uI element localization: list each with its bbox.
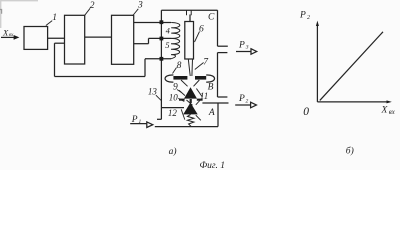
svg-text:7: 7 — [203, 57, 209, 67]
wire bottom feedthrough stub — [145, 58, 171, 60]
svg-text:6: 6 — [199, 25, 204, 35]
svg-text:б): б) — [346, 145, 354, 156]
svg-text:10: 10 — [169, 93, 179, 103]
feedthrough seal middle — [160, 37, 164, 41]
svg-text:A: A — [208, 108, 215, 118]
support hatch prongs — [187, 10, 192, 15]
output P3 arrow head (open) — [251, 49, 257, 55]
block 3 — [112, 15, 134, 64]
right seal arc — [206, 75, 214, 82]
P1 port upper lip — [157, 118, 161, 120]
feedback wire vertical — [54, 43, 56, 76]
wire to middle feedthrough — [149, 37, 172, 39]
support stem — [189, 15, 191, 22]
chamber C right wall upper — [217, 10, 219, 46]
svg-text:P: P — [299, 10, 306, 20]
label 8 — [173, 68, 177, 74]
graph label Xвх — [381, 106, 395, 116]
label 3 — [133, 9, 139, 16]
graph Y axis — [316, 24, 318, 102]
poppet 12 lower triangle — [183, 103, 198, 115]
spring — [187, 114, 194, 126]
graph line — [320, 32, 383, 101]
svg-text:X: X — [381, 106, 389, 116]
label 11 — [196, 99, 201, 104]
output P2 arrow head (open) — [251, 102, 257, 108]
seat diagonal left upper — [179, 90, 185, 95]
chamber A bottom wall — [155, 126, 218, 128]
svg-text:11: 11 — [200, 91, 208, 101]
output P2 arrow line — [235, 104, 250, 106]
svg-text:P: P — [238, 40, 245, 50]
svg-text:2: 2 — [90, 1, 95, 11]
supply label P1 — [131, 115, 142, 125]
chamber C top wall — [161, 9, 217, 11]
wire box1 to box2 — [48, 37, 65, 39]
seat bar right — [197, 99, 203, 101]
svg-text:2: 2 — [246, 99, 249, 105]
supply arrow head (open) — [147, 122, 153, 128]
riser bottom feedthrough to feedback — [144, 59, 146, 77]
valve stem — [190, 99, 192, 103]
input arrow — [1, 36, 15, 38]
svg-text:C: C — [208, 13, 215, 23]
input label Xвх — [2, 27, 14, 38]
seat diagonal lower left — [187, 100, 193, 105]
feedback wire into box2 — [55, 42, 65, 44]
nozzle funnel — [181, 80, 199, 86]
svg-text:3: 3 — [137, 1, 143, 11]
output P3 arrow line — [236, 51, 251, 53]
flapper bar right — [195, 76, 206, 80]
coil 4 — [171, 23, 180, 39]
output label P3 — [238, 40, 249, 50]
feedthrough seal bottom — [160, 57, 164, 61]
label 12 — [181, 109, 185, 119]
P3 port upper lip — [218, 45, 228, 47]
P2 port upper lip — [218, 96, 228, 98]
chamber A right wall — [217, 103, 219, 127]
P3 port lower lip — [218, 52, 228, 54]
svg-text:2: 2 — [307, 15, 310, 21]
label 10 — [178, 98, 184, 101]
svg-text:3: 3 — [245, 45, 249, 51]
svg-text:Фиг. 1: Фиг. 1 — [200, 161, 225, 170]
block 2 — [65, 15, 85, 64]
svg-text:1: 1 — [52, 13, 57, 23]
svg-text:9: 9 — [173, 83, 178, 93]
feedthrough seal top — [160, 20, 164, 24]
graph label P2 — [299, 10, 310, 21]
label 13 — [156, 95, 162, 101]
label 9 — [177, 90, 182, 93]
output label P2 — [238, 94, 249, 104]
P2 port lower lip / chamber A top shelf — [202, 102, 228, 104]
flapper bar left — [173, 76, 187, 80]
left partition B/A — [161, 107, 184, 109]
svg-text:а): а) — [169, 146, 177, 157]
svg-text:B: B — [208, 82, 214, 92]
svg-text:4: 4 — [166, 26, 171, 36]
diagonal below lower right corner — [196, 115, 201, 120]
seat bar left — [179, 99, 185, 101]
svg-text:12: 12 — [168, 108, 178, 118]
vane 6 — [185, 22, 194, 60]
svg-text:P: P — [238, 94, 245, 104]
svg-text:8: 8 — [177, 61, 182, 71]
svg-text:вх: вх — [389, 109, 395, 116]
stem vane to flapper — [188, 59, 192, 76]
feedback wire horizontal — [55, 76, 146, 78]
right wall between P3 and arc — [217, 53, 219, 97]
label 7 — [195, 63, 204, 70]
left seal arc — [165, 75, 173, 82]
wire box3 output 1 to top feedthrough — [134, 22, 171, 24]
svg-text:5: 5 — [165, 40, 169, 50]
svg-text:0: 0 — [303, 106, 309, 118]
coil 5 — [171, 38, 180, 58]
svg-text:13: 13 — [148, 87, 158, 97]
label 6 — [195, 32, 200, 43]
supply arrow line — [130, 123, 146, 125]
seat diagonal right upper — [196, 89, 202, 98]
chamber left wall — [160, 10, 162, 119]
wire box2 to box3 — [85, 36, 112, 38]
label 1 — [46, 21, 52, 26]
block 1 — [24, 27, 48, 50]
wire box3 output 2 — [134, 43, 149, 45]
scan edge artifact — [0, 0, 38, 2]
graph X axis — [317, 101, 388, 103]
poppet 10 upper triangle — [184, 87, 197, 98]
riser to middle feedthrough — [148, 38, 150, 43]
label 2 — [85, 8, 90, 15]
